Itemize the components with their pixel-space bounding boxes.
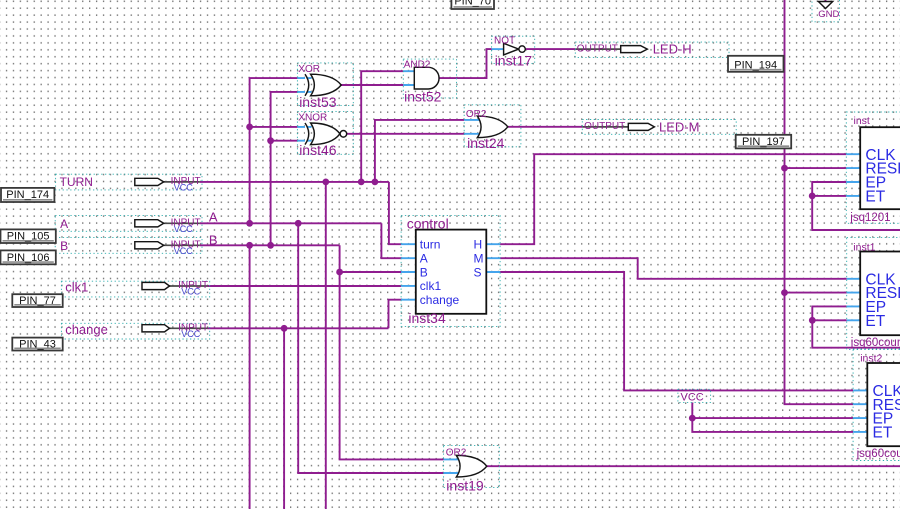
pin box PIN_70 — [451, 0, 494, 9]
junction A/gates — [246, 220, 253, 227]
label inst53 — [299, 94, 337, 110]
wire VCC branch to jsq60co inst2 EP pin — [692, 417, 853, 419]
selection box pin LED-H — [575, 42, 729, 58]
selection box OR2 inst19 — [444, 446, 500, 488]
wire A branch down to OR2 inst19 input 2 — [298, 223, 443, 473]
jsq60co block inst2 body — [867, 363, 900, 446]
junction B/XNOR — [267, 137, 274, 144]
output pin LED-M symbol — [582, 123, 654, 130]
label AND2 — [404, 60, 431, 71]
wire change up to control change input — [389, 300, 402, 329]
GND symbol — [818, 2, 832, 9]
svg-text:OR2: OR2 — [466, 109, 487, 120]
input pin change symbol — [142, 325, 208, 332]
control pin labels — [420, 238, 484, 308]
svg-text:jsq60count: jsq60count — [850, 337, 900, 349]
pin name B — [60, 239, 68, 253]
pin name LED-M — [659, 119, 699, 134]
svg-text:VCC: VCC — [681, 391, 704, 403]
wire B branch to XNOR input 2 — [271, 140, 298, 142]
label OR2 inst19 — [446, 448, 467, 459]
input pin A symbol — [135, 220, 200, 227]
control block inst34 body — [416, 230, 487, 314]
svg-text:A: A — [60, 217, 68, 231]
selection box pin B — [55, 238, 202, 254]
selection box jsq60co inst2 — [853, 349, 900, 461]
wire jsq1201 ET tie — [812, 195, 846, 197]
selection box VCC — [678, 389, 711, 402]
svg-text:B: B — [60, 239, 68, 253]
wire control H output to jsq1201 CLK — [500, 154, 846, 244]
label INPUT B — [171, 240, 201, 256]
label inst24 — [467, 135, 505, 151]
svg-text:VCC: VCC — [174, 224, 194, 234]
svg-text:change: change — [420, 293, 460, 307]
svg-text:clk1: clk1 — [65, 280, 88, 295]
wire AND2 output to NOT inst17 input — [439, 49, 491, 78]
jsq60co inst2 pin labels — [873, 383, 900, 442]
svg-text:VCC: VCC — [174, 246, 194, 256]
label inst2 — [860, 353, 882, 365]
svg-text:PIN_43: PIN_43 — [19, 338, 56, 350]
junction VCC/EP inst2 — [689, 415, 696, 422]
svg-text:TURN: TURN — [60, 175, 93, 189]
input pin B symbol — [135, 242, 200, 249]
pin box PIN_106 — [1, 250, 56, 264]
svg-text:M: M — [474, 252, 484, 266]
svg-text:inst24: inst24 — [467, 135, 505, 151]
pin box PIN_105 — [1, 229, 56, 243]
svg-text:turn: turn — [420, 238, 441, 252]
OR2 gate inst24 body — [477, 116, 508, 138]
selection box jsq1201 inst — [846, 112, 900, 223]
junction B/down — [246, 242, 253, 249]
label INPUT A — [171, 218, 201, 234]
selection box pin A — [55, 216, 202, 232]
label control — [407, 216, 449, 232]
wire TURN branch down to bottom edge — [325, 182, 327, 509]
svg-text:VCC: VCC — [181, 329, 201, 339]
svg-text:XNOR: XNOR — [298, 113, 327, 124]
wire RESET branch to jsq1201 RESET — [785, 167, 847, 169]
svg-text:inst1: inst1 — [853, 242, 875, 254]
selection box pin clk1 — [61, 281, 209, 297]
label inst1 — [853, 242, 875, 254]
label XOR — [298, 64, 320, 75]
svg-text:PIN_77: PIN_77 — [19, 295, 56, 307]
wire B branch to control B input — [340, 271, 402, 273]
junction EP-ET inst1 — [809, 317, 816, 324]
svg-text:inst: inst — [854, 115, 870, 127]
svg-text:GND: GND — [818, 9, 839, 20]
label jsq60co inst1 — [850, 337, 900, 349]
selection box NOT inst17 — [492, 36, 535, 63]
net label B — [209, 233, 218, 248]
wire control M output to jsq60co inst1 CLK — [500, 258, 847, 279]
svg-text:S: S — [474, 265, 482, 279]
svg-text:LED-M: LED-M — [659, 119, 699, 134]
pin name clk1 — [65, 280, 88, 295]
junction EP-ET jsq1201 — [809, 193, 816, 200]
XNOR gate inst46 body — [305, 123, 347, 145]
wire A net horizontal — [200, 222, 382, 224]
svg-text:jsq60count: jsq60count — [856, 448, 900, 460]
XNOR inst46 input stubs — [297, 127, 311, 141]
svg-text:VCC: VCC — [181, 287, 201, 297]
OR2 inst24 input stubs — [464, 120, 479, 134]
label OUTPUT LED-H — [577, 43, 618, 54]
selection box control inst34 — [401, 216, 500, 327]
svg-text:inst17: inst17 — [495, 53, 533, 69]
wire VCC to jsq60co inst2 EP — [692, 403, 853, 432]
svg-text:PIN_105: PIN_105 — [7, 231, 50, 243]
pin name change — [65, 322, 108, 337]
pin box PIN_197 — [736, 135, 792, 149]
net label A — [209, 210, 218, 225]
wire jsq60co inst1 EP tie — [812, 306, 900, 347]
wire A branch to XNOR input 1 — [250, 126, 298, 128]
wire change branch down to bottom edge — [283, 328, 285, 509]
svg-text:inst52: inst52 — [404, 88, 442, 104]
selection box AND2 inst52 — [403, 59, 456, 98]
pin box PIN_77 — [12, 294, 62, 307]
selection box pin LED-M — [582, 120, 736, 135]
selection box GND — [812, 0, 840, 22]
junction B/gates — [267, 242, 274, 249]
jsq1201 block inst body — [860, 127, 900, 209]
wire OR2 inst24 output to OUTPUT LED-M — [508, 126, 583, 128]
pin name TURN — [60, 175, 93, 189]
svg-text:H: H — [474, 238, 483, 252]
svg-text:PIN_194: PIN_194 — [734, 59, 777, 71]
input pin clk1 symbol — [142, 282, 208, 289]
svg-text:OUTPUT: OUTPUT — [577, 43, 618, 54]
selection box pin change — [61, 323, 209, 339]
junction RESET/inst1 — [781, 289, 788, 296]
wire B branch down to bottom edge — [249, 245, 251, 509]
svg-text:ET: ET — [865, 313, 885, 330]
svg-text:clk1: clk1 — [420, 279, 442, 293]
junction TURN/OR2 — [372, 179, 379, 186]
output pin LED-H symbol — [575, 46, 647, 53]
wire NOT inst17 output to OUTPUT LED-H — [525, 48, 575, 50]
OR2 gate inst19 body — [456, 455, 487, 477]
label XNOR — [298, 113, 327, 124]
svg-text:PIN_197: PIN_197 — [742, 136, 785, 148]
junction RESET/jsq1201 — [781, 165, 788, 172]
label inst46 — [299, 142, 337, 158]
svg-text:PIN_106: PIN_106 — [7, 252, 50, 264]
XOR inst53 input stubs — [297, 78, 311, 92]
jsq60co block inst1 body — [860, 252, 900, 336]
selection box XNOR inst46 — [297, 111, 353, 154]
AND2 inst52 input stubs — [403, 71, 415, 85]
wire OR2 inst19 output to east edge — [487, 465, 900, 467]
svg-text:change: change — [65, 322, 108, 337]
wire control S output to jsq60co inst2 CLK — [500, 272, 853, 390]
svg-text:LED-H: LED-H — [653, 41, 692, 56]
svg-text:PIN_70: PIN_70 — [454, 0, 491, 8]
svg-text:B: B — [209, 233, 218, 248]
svg-text:ET: ET — [865, 189, 885, 206]
OR2 inst19 input stubs — [444, 459, 459, 473]
wire change net — [208, 327, 389, 329]
svg-text:inst53: inst53 — [299, 94, 337, 110]
pin box PIN_194 — [728, 56, 784, 72]
svg-text:inst34: inst34 — [408, 310, 446, 326]
label INPUT TURN — [171, 176, 201, 192]
label inst52 — [404, 88, 442, 104]
wire XOR inst53 output to AND2 input 2 — [341, 84, 403, 86]
control block output stubs — [486, 244, 500, 272]
junction B/control — [336, 269, 343, 276]
label inst — [854, 115, 870, 127]
jsq60co inst1 pin stubs — [847, 279, 861, 321]
svg-text:A: A — [420, 252, 428, 266]
wire jsq1201 EP tie — [812, 182, 900, 230]
svg-text:control: control — [407, 216, 449, 232]
label VCC supply — [681, 391, 704, 403]
svg-text:PIN_174: PIN_174 — [6, 189, 49, 201]
wire XNOR inst46 output to OR2 inst24 input 2 — [347, 133, 465, 135]
selection box XOR inst53 — [297, 63, 353, 106]
wire A down to control A input — [381, 223, 401, 258]
svg-text:OUTPUT: OUTPUT — [584, 121, 625, 132]
label NOT — [494, 36, 515, 47]
pin name LED-H — [653, 41, 692, 56]
NOT inst17 input stub — [492, 48, 505, 50]
label inst17 — [495, 53, 533, 69]
pin name A — [60, 217, 68, 231]
input pin TURN symbol — [135, 178, 200, 185]
selection box OR2 inst24 — [464, 105, 521, 147]
control block input stubs — [401, 244, 416, 300]
svg-text:A: A — [209, 210, 218, 225]
wire clk1 net — [208, 285, 402, 287]
selection box pin TURN — [56, 174, 202, 190]
label jsq1201 — [849, 212, 890, 224]
label OUTPUT LED-M — [584, 121, 625, 132]
svg-text:inst46: inst46 — [299, 142, 337, 158]
jsq1201 pin stubs — [846, 154, 860, 196]
junction TURN/down — [322, 179, 329, 186]
AND2 gate inst52 body — [414, 67, 439, 89]
label INPUT change — [178, 323, 208, 339]
wire TURN branch up to OR2 inst24 input 1 — [375, 120, 464, 182]
selection box jsq60co inst1 — [847, 237, 900, 349]
junction A/XNOR — [246, 124, 253, 131]
junction change/down — [281, 325, 288, 332]
wire B net horizontal — [200, 244, 340, 246]
wire RESET net vertical from top edge — [785, 0, 854, 404]
label inst19 — [446, 477, 484, 493]
svg-text:NOT: NOT — [494, 36, 515, 47]
svg-text:VCC: VCC — [174, 183, 194, 193]
jsq60co inst1 pin labels — [865, 271, 900, 330]
NOT gate inst17 body — [504, 43, 526, 55]
svg-text:inst2: inst2 — [860, 353, 882, 365]
svg-text:AND2: AND2 — [404, 60, 431, 71]
label jsq60co inst2 — [856, 448, 900, 460]
label inst34 — [408, 310, 446, 326]
junction A/inst19 — [295, 220, 302, 227]
label OR2 inst24 — [466, 109, 487, 120]
pin box PIN_43 — [12, 338, 62, 351]
wire B vertical up to XOR input 2 — [271, 92, 298, 245]
junction TURN/AND2 — [358, 179, 365, 186]
wire A vertical up to XOR input 1 — [250, 78, 298, 223]
pin box PIN_174 — [1, 188, 54, 202]
wire RESET branch to jsq60co inst1 RESET — [785, 292, 847, 294]
svg-text:OR2: OR2 — [446, 448, 467, 459]
svg-text:B: B — [420, 265, 428, 279]
jsq1201 pin labels — [865, 147, 900, 206]
wire TURN net horizontal — [200, 181, 389, 183]
XOR gate inst53 body — [305, 74, 341, 96]
svg-text:ET: ET — [873, 425, 893, 442]
wire jsq60co inst1 ET tie — [812, 319, 846, 321]
svg-text:inst19: inst19 — [446, 477, 484, 493]
svg-text:jsq1201: jsq1201 — [849, 212, 890, 224]
label GND — [818, 9, 839, 20]
wire GND stub — [825, 0, 827, 2]
wire TURN branch up to AND2 input 1 — [361, 71, 403, 182]
wire B down to control B input and OR2 inst19 input 1 — [340, 245, 444, 459]
label INPUT clk1 — [178, 280, 208, 296]
wire TURN down to control turn input — [389, 182, 401, 244]
svg-text:XOR: XOR — [298, 64, 320, 75]
jsq60co inst2 pin stubs — [853, 390, 867, 432]
